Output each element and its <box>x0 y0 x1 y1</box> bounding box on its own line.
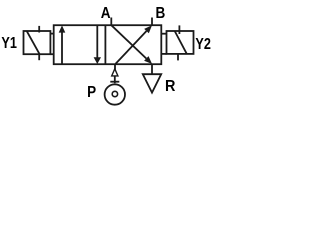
solenoid Y1 diagonal <box>27 31 40 54</box>
port A tick <box>110 18 112 26</box>
source connection bar <box>110 81 119 83</box>
compressed air source circle <box>105 84 125 104</box>
svg-text:Y1: Y1 <box>1 35 17 52</box>
solenoid Y1 bottom pin <box>38 54 40 60</box>
arrowhead A to R <box>144 56 152 64</box>
pneumatic source flow triangle (hollow, up) <box>112 69 118 76</box>
port P tick <box>114 64 116 69</box>
solenoid Y1 box <box>24 31 51 54</box>
Y1 lower link to body <box>50 53 53 55</box>
solenoid Y2 bottom pin <box>177 54 179 61</box>
X diagonal P to B stem <box>116 31 147 64</box>
down arrowhead <box>94 57 101 64</box>
solenoid Y2 box <box>167 31 194 54</box>
Y2 upper link to body <box>161 33 166 35</box>
Y2 lower link to body <box>161 53 166 55</box>
valve body outline <box>54 25 162 64</box>
source stem <box>114 76 116 83</box>
arrowhead P to B <box>144 25 152 33</box>
left cell down-arrow stem <box>96 26 98 59</box>
Y1 upper link to body <box>50 33 53 35</box>
exhaust triangle R (hollow, down) <box>143 74 161 92</box>
svg-text:R: R <box>165 78 176 95</box>
svg-text:P: P <box>87 84 96 101</box>
position divider <box>104 25 106 64</box>
svg-text:Y2: Y2 <box>195 36 211 53</box>
port B tick <box>151 18 153 26</box>
svg-text:B: B <box>156 5 166 22</box>
solenoid Y2 diagonal <box>175 31 187 54</box>
solenoid Y1 top pin <box>38 26 40 33</box>
up arrowhead <box>59 25 66 32</box>
port R tick <box>151 64 153 74</box>
X diagonal A to R stem <box>111 25 146 58</box>
source inner dot ring <box>112 91 117 96</box>
solenoid Y2 top pin <box>178 25 180 34</box>
left cell up-arrow stem <box>61 31 63 64</box>
svg-text:A: A <box>101 5 111 22</box>
